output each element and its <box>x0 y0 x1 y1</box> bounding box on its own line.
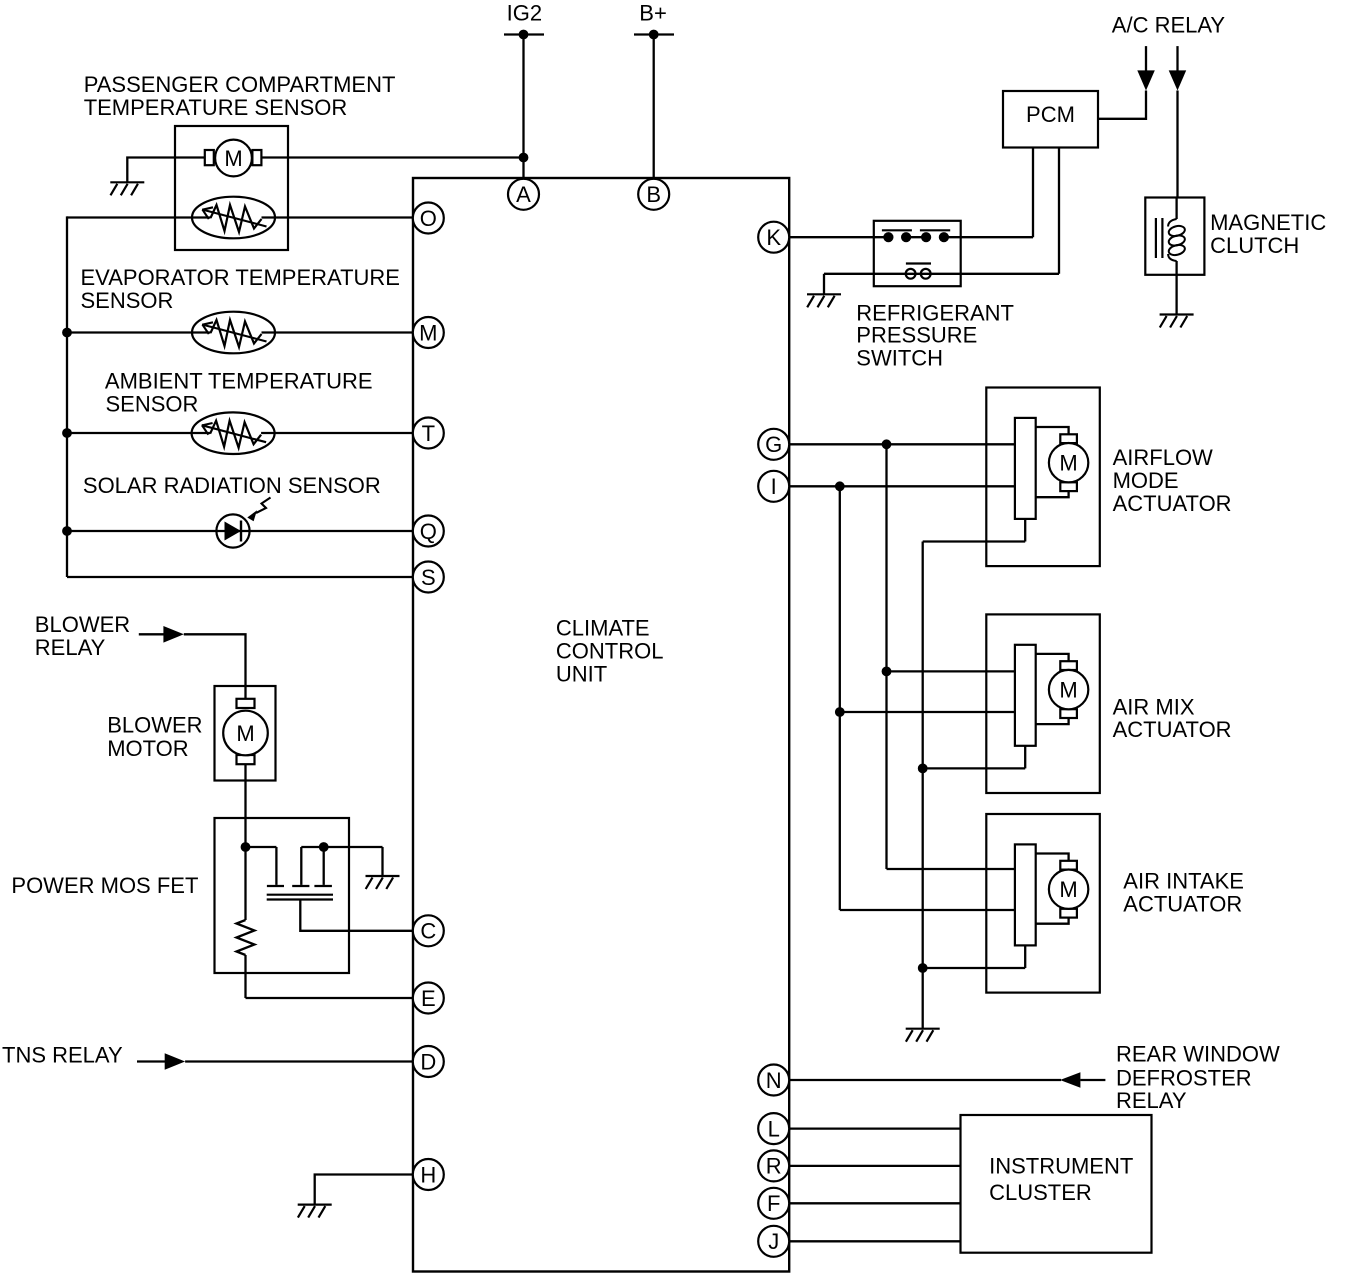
clutch coil <box>1168 198 1186 315</box>
return wire air mix actuator <box>923 767 1025 769</box>
climate control unit box <box>413 178 789 1272</box>
svg-text:BLOWER: BLOWER <box>107 713 202 738</box>
ground (power MOS FET) <box>366 876 400 889</box>
svg-text:AMBIENT TEMPERATURE: AMBIENT TEMPERATURE <box>105 369 373 394</box>
junction dot Q row <box>62 526 72 536</box>
wire I bus to air intake actuator <box>840 909 1015 911</box>
svg-text:REFRIGERANT: REFRIGERANT <box>856 300 1014 325</box>
svg-text:ACTUATOR: ACTUATOR <box>1113 491 1232 516</box>
wire motor to ground <box>127 158 205 184</box>
svg-text:M: M <box>1059 677 1077 702</box>
junction dot (drain node) <box>241 842 251 852</box>
svg-text:SWITCH: SWITCH <box>856 346 943 371</box>
svg-text:O: O <box>420 206 437 231</box>
svg-text:N: N <box>766 1068 782 1093</box>
svg-text:POWER MOS FET: POWER MOS FET <box>11 873 198 898</box>
left sensor bus wire <box>66 216 68 577</box>
svg-text:M: M <box>224 146 242 171</box>
actuator common return bus <box>922 542 924 1029</box>
pin E <box>413 983 444 1014</box>
junction dot (I bus / air mix) <box>835 707 845 717</box>
svg-text:J: J <box>768 1229 779 1254</box>
svg-text:L: L <box>768 1116 780 1141</box>
svg-text:AIR INTAKE: AIR INTAKE <box>1123 868 1244 893</box>
svg-text:RELAY: RELAY <box>35 635 106 660</box>
wire pin J to instrument cluster <box>789 1240 960 1242</box>
svg-text:MAGNETIC: MAGNETIC <box>1210 210 1326 235</box>
svg-text:UNIT: UNIT <box>556 662 607 687</box>
junction dot (gate/ground node) <box>319 842 329 852</box>
svg-text:PASSENGER COMPARTMENT: PASSENGER COMPARTMENT <box>84 72 396 97</box>
wire G bus to air mix actuator <box>887 670 1015 672</box>
wire to gates <box>246 847 383 885</box>
I bus vertical wire <box>839 486 841 910</box>
pin N <box>758 1065 789 1096</box>
magnetic clutch box <box>1145 198 1204 275</box>
junction dot (return / air mix) <box>918 764 928 774</box>
wire photodiode row Q <box>67 530 413 532</box>
junction dot T row <box>62 428 72 438</box>
thermistor (ambient sensor) <box>192 412 275 454</box>
svg-text:EVAPORATOR TEMPERATURE: EVAPORATOR TEMPERATURE <box>81 265 400 290</box>
clutch core bars <box>1156 218 1163 258</box>
wire pin R to instrument cluster <box>789 1165 960 1167</box>
airflow mode actuator <box>986 388 1100 567</box>
svg-text:TNS RELAY: TNS RELAY <box>2 1043 123 1068</box>
svg-text:M: M <box>419 320 437 345</box>
svg-text:F: F <box>767 1191 780 1216</box>
terminal IG2 <box>504 30 544 40</box>
pin K <box>758 222 789 253</box>
ground (pin H) <box>298 1205 332 1218</box>
svg-text:TEMPERATURE SENSOR: TEMPERATURE SENSOR <box>84 95 348 120</box>
pressure switch lower contacts <box>906 264 931 279</box>
wire PCM to A/C relay <box>1098 91 1146 119</box>
pin I <box>758 471 789 502</box>
svg-text:H: H <box>420 1162 436 1187</box>
MOSFET gate bars <box>267 885 332 887</box>
pin Q <box>413 516 444 547</box>
svg-text:BLOWER: BLOWER <box>35 612 130 637</box>
wire row S <box>67 576 413 578</box>
wire ground to pressure switch to PCM <box>824 273 1059 275</box>
svg-text:I: I <box>771 474 777 499</box>
svg-text:MODE: MODE <box>1113 468 1179 493</box>
instrument cluster box <box>961 1115 1152 1253</box>
pin H <box>413 1159 444 1190</box>
wire thermistor row M <box>67 331 211 333</box>
svg-text:CONTROL: CONTROL <box>556 639 664 664</box>
wire pin F to instrument cluster <box>789 1202 960 1204</box>
wire to ground (pressure switch) <box>823 274 825 295</box>
thermistor (passenger compartment sensor) <box>192 197 275 239</box>
air mix actuator <box>986 614 1100 793</box>
svg-text:R: R <box>766 1154 782 1179</box>
pin R <box>758 1150 789 1181</box>
pressure switch contact dots <box>883 232 949 242</box>
pin M <box>413 317 444 348</box>
ground (magnetic clutch) <box>1160 315 1194 328</box>
svg-text:ACTUATOR: ACTUATOR <box>1123 891 1242 916</box>
thermistor (evaporator sensor) <box>192 312 275 354</box>
TNS relay wire and arrow <box>137 1053 413 1070</box>
A/C relay arrow 1 <box>1137 46 1155 90</box>
svg-text:G: G <box>765 432 782 457</box>
junction dot I bus <box>835 481 845 491</box>
pressure switch contact bars <box>882 229 950 231</box>
svg-text:IG2: IG2 <box>507 1 542 26</box>
svg-text:PRESSURE: PRESSURE <box>856 323 977 348</box>
pin S <box>413 562 444 593</box>
svg-text:SENSOR: SENSOR <box>106 391 199 416</box>
svg-text:T: T <box>422 421 435 446</box>
svg-text:B+: B+ <box>639 1 667 26</box>
wire I bus to air mix actuator <box>840 711 1015 713</box>
svg-text:M: M <box>236 721 254 746</box>
pin D <box>413 1046 444 1077</box>
pin G <box>758 429 789 460</box>
junction dot G bus <box>882 439 892 449</box>
svg-text:A: A <box>516 182 531 207</box>
aspirator motor M (passenger sensor) <box>205 140 262 177</box>
svg-text:PCM: PCM <box>1026 102 1075 127</box>
junction dot M row <box>62 328 72 338</box>
wire blower motor to power MOS FET <box>244 764 246 847</box>
pin F <box>758 1188 789 1219</box>
svg-text:MOTOR: MOTOR <box>107 736 188 761</box>
pin T <box>413 418 444 449</box>
pin A <box>508 179 539 210</box>
svg-text:M: M <box>1059 877 1077 902</box>
svg-text:INSTRUMENT: INSTRUMENT <box>989 1154 1133 1179</box>
wire resistor to pin E <box>246 997 413 999</box>
pin B <box>638 179 669 210</box>
terminal B+ <box>634 30 674 40</box>
svg-text:C: C <box>420 919 436 944</box>
return wire airflow mode actuator <box>923 540 1025 542</box>
svg-text:D: D <box>420 1049 436 1074</box>
resistor (power MOS FET) <box>237 847 255 998</box>
svg-text:M: M <box>1059 451 1077 476</box>
svg-text:A/C RELAY: A/C RELAY <box>1112 12 1226 37</box>
PCM box <box>1003 91 1098 148</box>
wire A/C relay to magnetic clutch <box>1176 91 1178 198</box>
pin J <box>758 1226 789 1257</box>
wire thermistor row O <box>67 216 211 218</box>
svg-text:S: S <box>421 565 436 590</box>
blower motor M <box>223 699 268 764</box>
svg-text:E: E <box>421 986 436 1011</box>
svg-text:RELAY: RELAY <box>1116 1088 1187 1113</box>
passenger sensor box <box>175 126 288 250</box>
svg-text:ACTUATOR: ACTUATOR <box>1113 717 1232 742</box>
ground (actuator return) <box>906 1029 940 1042</box>
photodiode (solar radiation sensor) <box>216 498 270 548</box>
wire IG2 to pin A <box>522 35 524 180</box>
junction dot IG2/motor wire <box>519 153 529 163</box>
A/C relay arrow 2 <box>1169 46 1187 90</box>
wire pin K to pressure switch and PCM <box>789 236 1033 238</box>
svg-text:SOLAR RADIATION SENSOR: SOLAR RADIATION SENSOR <box>83 473 381 498</box>
wire motor to IG2 node <box>261 156 524 158</box>
svg-text:K: K <box>766 225 781 250</box>
wire to ground (power MOS FET) <box>381 847 383 876</box>
wire pin G to airflow mode actuator <box>789 443 1015 445</box>
svg-text:DEFROSTER: DEFROSTER <box>1116 1065 1252 1090</box>
svg-text:REAR WINDOW: REAR WINDOW <box>1116 1042 1280 1067</box>
pin O <box>413 203 444 234</box>
wire pressure switch lower to PCM (vertical) <box>1058 148 1060 274</box>
wire thermistor row T <box>67 432 210 434</box>
wire pin L to instrument cluster <box>789 1127 960 1129</box>
ground (pressure switch) <box>807 294 841 307</box>
svg-text:AIRFLOW: AIRFLOW <box>1113 445 1213 470</box>
ground (passenger sensor) <box>110 182 144 195</box>
G bus vertical wire <box>885 444 887 869</box>
wire pin I to airflow mode actuator <box>789 485 1015 487</box>
svg-text:CLUSTER: CLUSTER <box>989 1180 1092 1205</box>
power MOS FET box <box>215 818 350 973</box>
pin C <box>413 915 444 946</box>
wire pin N with arrow (rear window defroster relay) <box>789 1072 1105 1088</box>
svg-text:B: B <box>646 182 661 207</box>
junction dot (G bus / air mix) <box>882 667 892 677</box>
air intake actuator <box>986 814 1100 993</box>
wire pressure switch to PCM (vertical) <box>1032 148 1034 238</box>
wire B+ to pin B <box>653 35 655 180</box>
wire G bus to air intake actuator <box>887 868 1015 870</box>
wire pin H to ground <box>315 1175 413 1206</box>
return wire air intake actuator <box>923 967 1025 969</box>
svg-text:SENSOR: SENSOR <box>81 288 174 313</box>
pin L <box>758 1113 789 1144</box>
svg-text:CLIMATE: CLIMATE <box>556 616 650 641</box>
refrigerant pressure switch box <box>874 221 961 286</box>
svg-text:Q: Q <box>420 519 437 544</box>
svg-text:AIR MIX: AIR MIX <box>1113 694 1195 719</box>
blower motor box <box>215 686 276 781</box>
wire MOSFET to pin C <box>300 899 412 931</box>
blower relay wire and arrow <box>139 626 246 700</box>
junction dot (return / air intake) <box>918 963 928 973</box>
svg-text:CLUTCH: CLUTCH <box>1210 233 1299 258</box>
MOSFET channel <box>267 895 333 900</box>
